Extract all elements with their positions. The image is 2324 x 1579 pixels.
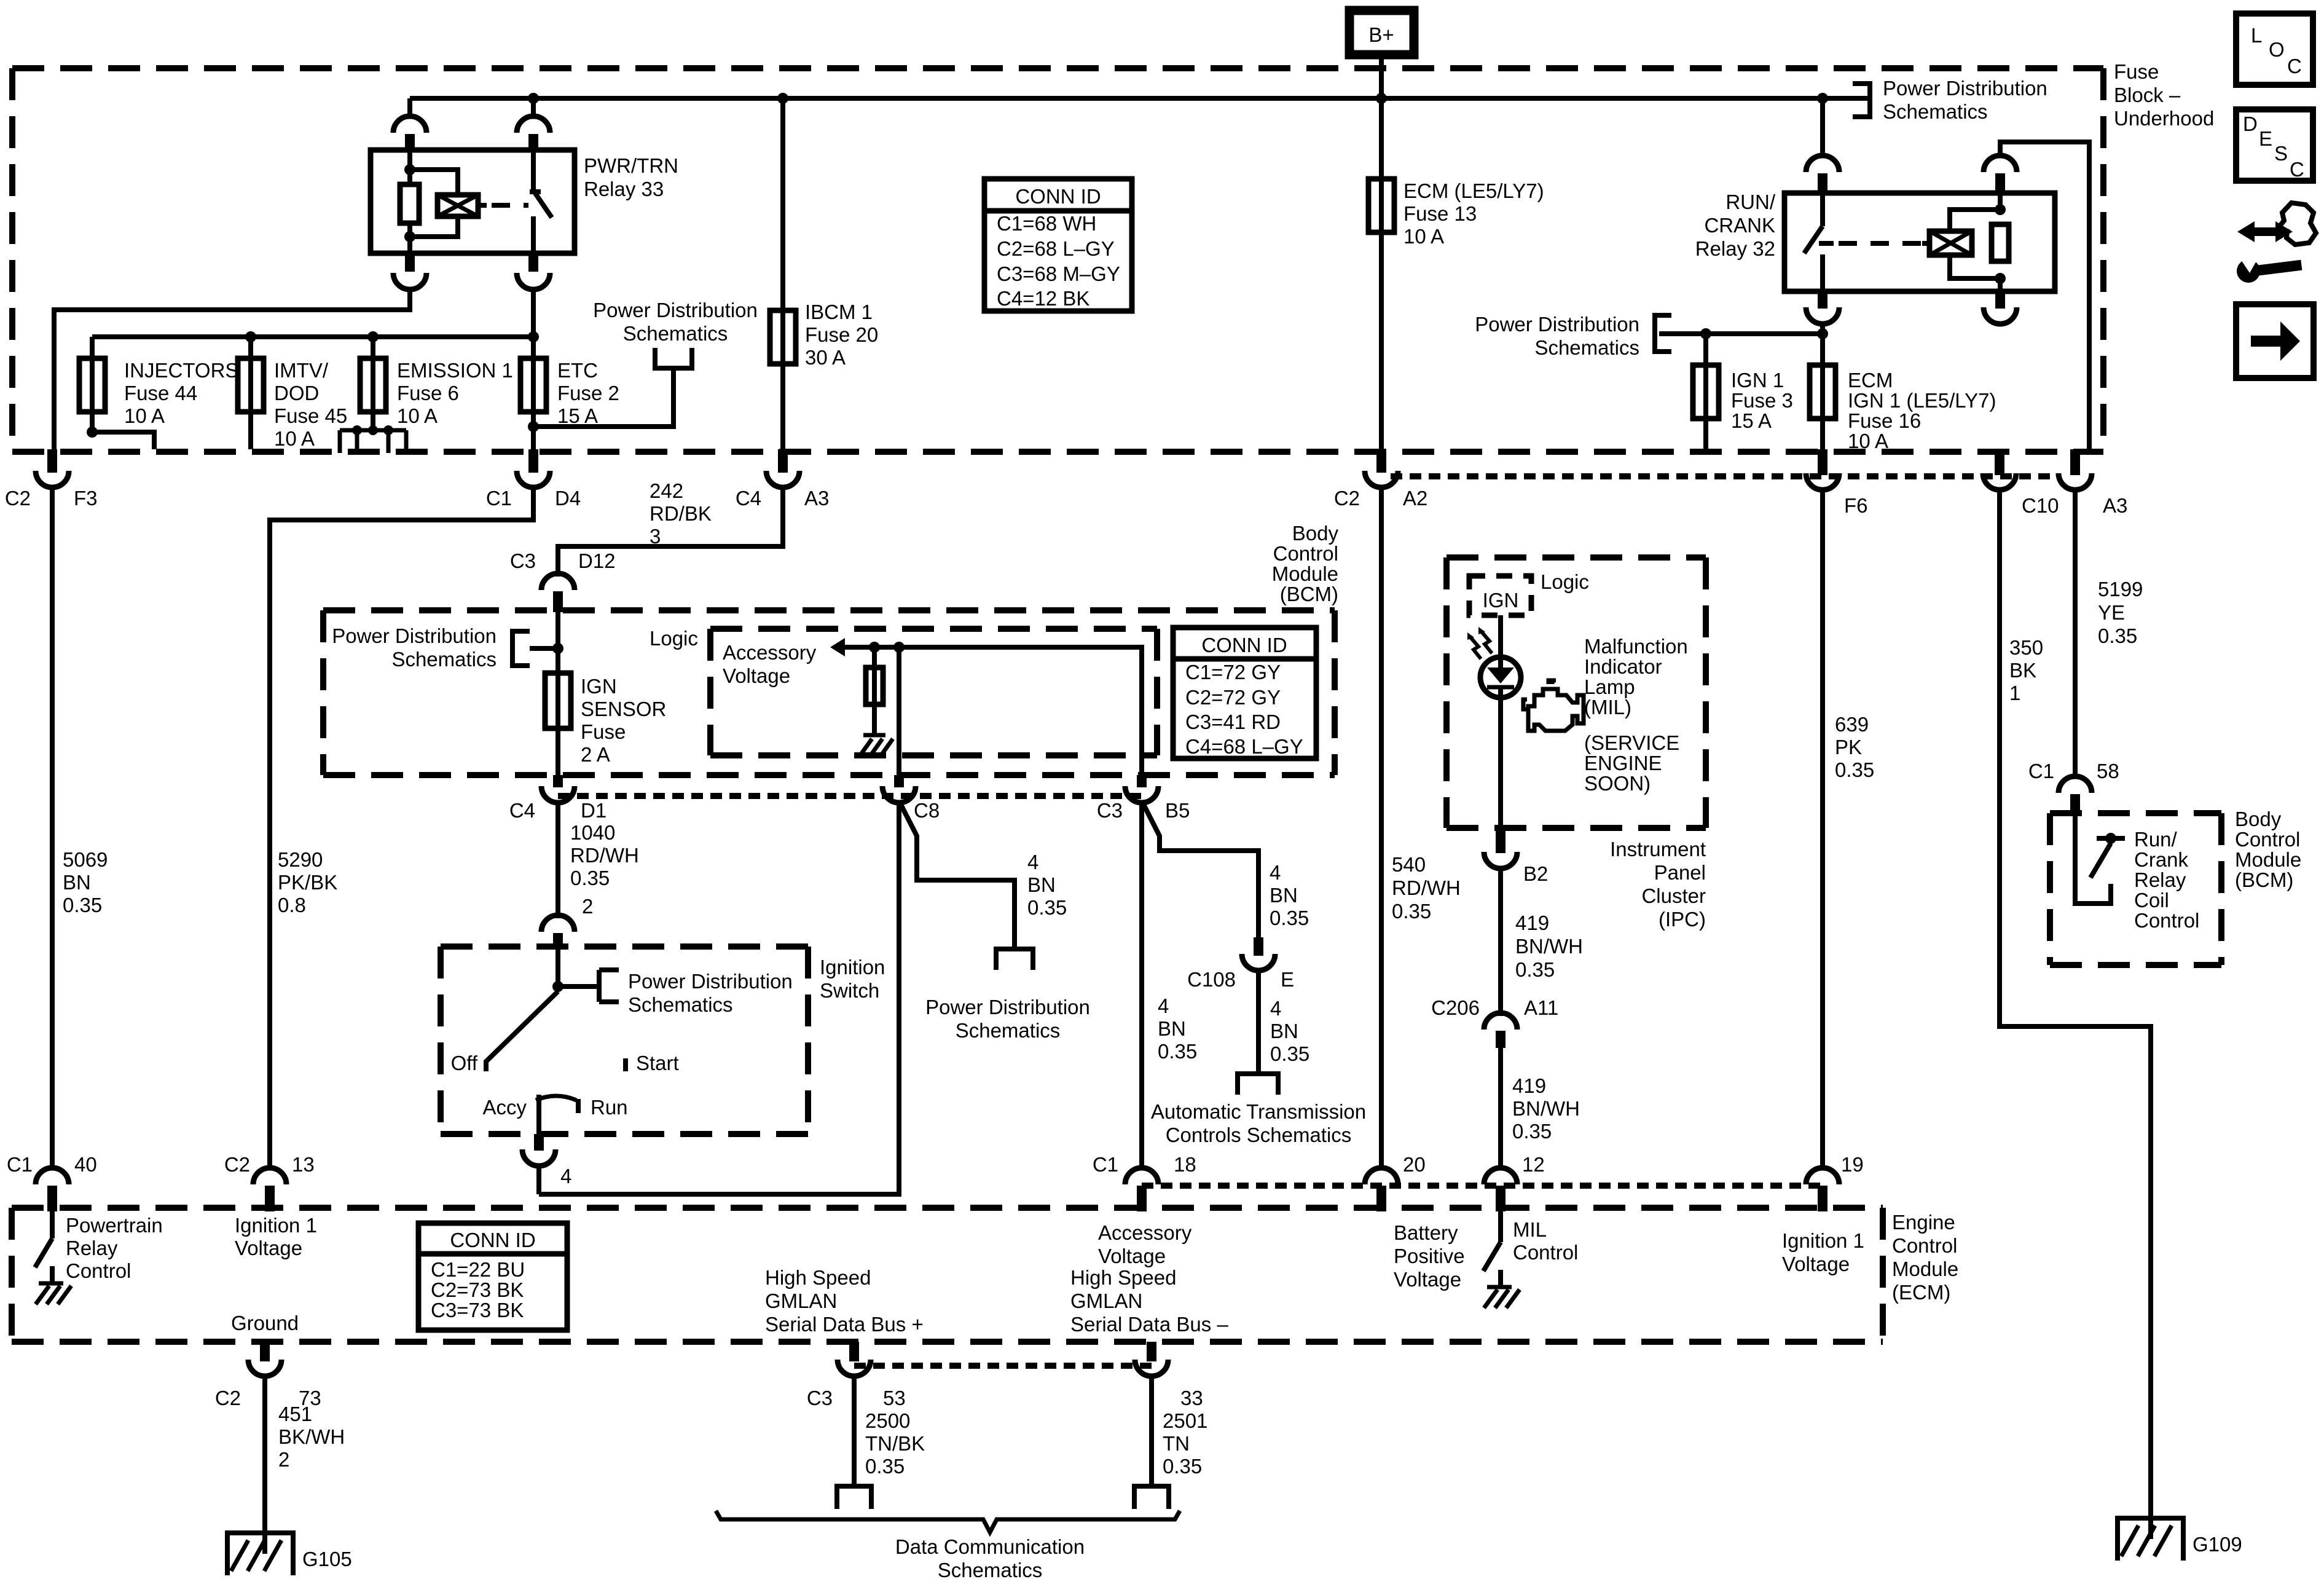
- connector arc relay32 right pin bottom: [1984, 307, 2017, 324]
- inner dashed box accessory voltage: [710, 629, 1157, 755]
- svg-text:B2: B2: [1523, 862, 1548, 885]
- connector arc relay32 left pin bottom: [1806, 307, 1839, 324]
- contact Start tick: [623, 1058, 628, 1071]
- connector C1/D4 exit: [486, 449, 581, 510]
- pin stub GMLAN plus exit: [849, 1342, 859, 1361]
- label 4 BN 0.35 C8 branch: [1027, 851, 1067, 919]
- label power distribution schematics BCM: [332, 624, 497, 671]
- wire 2500 TN/BK: [852, 1374, 857, 1484]
- svg-text:CONN ID: CONN ID: [1201, 634, 1287, 656]
- svg-text:Body: Body: [1292, 522, 1339, 545]
- label 540 RD/WH 0.35: [1392, 853, 1461, 923]
- fuse F20 IBCM 1: [770, 310, 796, 364]
- fuse block underhood dashed box: [12, 68, 2103, 452]
- svg-text:Module: Module: [2235, 848, 2301, 871]
- svg-text:High Speed: High Speed: [1070, 1266, 1176, 1289]
- page link staple GMLAN minus: [1134, 1486, 1169, 1509]
- svg-text:Control: Control: [1513, 1241, 1578, 1264]
- svg-text:C2=68 L–GY: C2=68 L–GY: [997, 237, 1115, 260]
- svg-text:Fuse: Fuse: [2114, 60, 2159, 83]
- svg-text:(SERVICE: (SERVICE: [1584, 731, 1679, 754]
- switch relay32 contact: [1804, 193, 1834, 291]
- connector C3/53 GMLAN plus: [807, 1360, 906, 1409]
- svg-text:242: 242: [650, 479, 683, 502]
- label 419 BN/WH 0.35 upper: [1515, 912, 1583, 981]
- svg-text:IGN 1 (LE5/LY7): IGN 1 (LE5/LY7): [1848, 389, 1996, 412]
- pin stub GMLAN minus exit: [1147, 1342, 1156, 1361]
- svg-text:Schematics: Schematics: [938, 1559, 1043, 1579]
- wire 639 PK ignition1 voltage ECM: [1820, 489, 1825, 1170]
- fuse block label: [2114, 60, 2214, 130]
- wire INJECTORS fuse output: [92, 412, 154, 449]
- svg-text:C1: C1: [486, 487, 512, 510]
- svg-text:(MIL): (MIL): [1584, 696, 1631, 719]
- svg-text:419: 419: [1512, 1074, 1546, 1097]
- label Body Control Module BCM: [1272, 522, 1339, 605]
- junction dot ETC output branch: [528, 421, 539, 432]
- svg-text:C1=68 WH: C1=68 WH: [997, 212, 1096, 235]
- label service engine soon: [1584, 731, 1679, 795]
- label 419 BN/WH 0.35 lower: [1512, 1074, 1580, 1143]
- node B+ battery feed box: [1349, 10, 1414, 55]
- svg-text:G109: G109: [2192, 1533, 2242, 1556]
- svg-text:Relay 32: Relay 32: [1695, 237, 1775, 260]
- svg-text:G105: G105: [302, 1548, 352, 1570]
- connector C1/40 ECM: [7, 1153, 97, 1211]
- fuse IGN SENSOR: [545, 673, 571, 728]
- svg-text:RD/WH: RD/WH: [570, 844, 639, 867]
- svg-text:0.35: 0.35: [1158, 1040, 1197, 1063]
- connector A3 exit right: [2059, 449, 2127, 517]
- svg-text:Battery: Battery: [1394, 1221, 1458, 1244]
- fuse F45 IMTV/DOD lead: [248, 337, 253, 412]
- label data communication schematics: [895, 1535, 1085, 1579]
- svg-text:Module: Module: [1892, 1258, 1958, 1280]
- relay K33 PWR/TRN Relay 33 box: [371, 150, 575, 253]
- svg-text:C2=73 BK: C2=73 BK: [431, 1278, 524, 1301]
- svg-text:2: 2: [582, 895, 593, 918]
- svg-text:0.35: 0.35: [1270, 1042, 1309, 1065]
- svg-text:ENGINE: ENGINE: [1584, 752, 1662, 774]
- svg-text:10 A: 10 A: [124, 404, 165, 427]
- svg-text:15 A: 15 A: [1731, 409, 1772, 432]
- junction dot ETC fuse: [528, 331, 539, 342]
- svg-text:Control: Control: [66, 1259, 131, 1282]
- fuse F3 label: [1731, 369, 1793, 432]
- svg-text:C3: C3: [510, 549, 536, 572]
- label 5199 YE 0.35: [2098, 578, 2143, 647]
- junction dot coil top: [404, 164, 415, 175]
- svg-text:D1: D1: [581, 799, 607, 822]
- connector C206/A11: [1431, 996, 1558, 1048]
- svg-text:E: E: [1281, 968, 1294, 991]
- svg-text:2501: 2501: [1163, 1409, 1207, 1432]
- relay33 label: [584, 154, 678, 200]
- pin stub ground exit: [260, 1342, 270, 1361]
- connector C2/A2 exit: [1334, 449, 1428, 510]
- pin stub relay33 left pin bottom: [405, 253, 415, 272]
- label automatic transmission controls schematics: [1151, 1100, 1366, 1146]
- pin stub relay32 left pin bottom: [1818, 291, 1827, 309]
- svg-text:IGN: IGN: [581, 675, 617, 698]
- wire relay32 coil branch: [1950, 210, 2000, 278]
- page link staple C8 PDS: [996, 949, 1033, 970]
- connector C10 exit: [1983, 449, 2059, 517]
- label accessory voltage BCM: [723, 641, 817, 687]
- wire C8 to ignition switch feed: [539, 801, 899, 1194]
- svg-text:639: 639: [1835, 713, 1869, 736]
- svg-text:2: 2: [278, 1448, 289, 1471]
- junction dot IGN1 fuse feed: [1700, 328, 1711, 339]
- ground chassis BCM accessory: [860, 735, 893, 756]
- svg-text:Serial Data Bus +: Serial Data Bus +: [765, 1313, 924, 1336]
- fuse F3 IGN 1: [1693, 365, 1719, 419]
- svg-text:A3: A3: [804, 487, 829, 510]
- svg-text:Fuse 2: Fuse 2: [557, 382, 619, 404]
- svg-text:Module: Module: [1272, 562, 1338, 585]
- svg-text:Fuse 3: Fuse 3: [1731, 389, 1793, 412]
- label malfunction indicator lamp MIL: [1584, 635, 1688, 719]
- svg-text:CRANK: CRANK: [1704, 214, 1775, 237]
- connector 12 ECM: [1484, 1153, 1545, 1211]
- svg-text:L: L: [2251, 24, 2262, 47]
- svg-text:C3=73 BK: C3=73 BK: [431, 1299, 524, 1321]
- label 350 BK 1: [2009, 636, 2043, 704]
- svg-text:350: 350: [2009, 636, 2043, 659]
- svg-text:C108: C108: [1187, 968, 1236, 991]
- svg-text:Fuse 6: Fuse 6: [397, 382, 459, 404]
- label 5290 PK/BK 0.8: [278, 848, 337, 916]
- svg-text:5290: 5290: [278, 848, 323, 871]
- svg-text:4: 4: [1158, 994, 1169, 1017]
- svg-text:15 A: 15 A: [557, 404, 598, 427]
- wire battery positive voltage: [1379, 488, 1384, 1170]
- svg-text:Automatic Transmission: Automatic Transmission: [1151, 1100, 1366, 1123]
- svg-text:PWR/TRN: PWR/TRN: [584, 154, 678, 177]
- connector C2/13 ECM: [224, 1153, 315, 1211]
- wire C108 to automatic transmission: [1256, 970, 1261, 1072]
- module BCM dashed box upper: [323, 610, 1335, 775]
- resistor relay33 coil suppression: [400, 184, 419, 223]
- contact Run tick: [576, 1099, 581, 1113]
- lightning arrows MIL: [1467, 627, 1492, 659]
- junction dot relay32 coil bottom: [1995, 273, 2006, 284]
- svg-text:DOD: DOD: [274, 382, 319, 404]
- svg-text:Fuse 13: Fuse 13: [1403, 202, 1477, 225]
- svg-text:Control: Control: [1892, 1234, 1957, 1257]
- label 4 BN 0.35 ECM branch: [1158, 994, 1197, 1063]
- svg-text:Logic: Logic: [1541, 570, 1589, 593]
- pin stub C4/D1: [553, 775, 563, 787]
- wire ECM fuse13 feed from bus: [1379, 98, 1384, 232]
- wire 5069 BN powertrain relay control: [50, 488, 55, 1170]
- page link staple automatic transmission: [1238, 1074, 1278, 1095]
- svg-text:A11: A11: [1524, 996, 1558, 1019]
- ground chassis MIL: [1484, 1287, 1520, 1308]
- svg-text:0.35: 0.35: [1027, 896, 1067, 919]
- svg-text:Relay: Relay: [2134, 868, 2186, 891]
- connector C1/18 ECM: [1093, 1153, 1196, 1211]
- relay32 label: [1695, 191, 1776, 260]
- wire relay32 left pin to fuse row: [1820, 322, 1825, 419]
- label powertrain relay control: [66, 1214, 163, 1282]
- svg-text:Fuse: Fuse: [581, 720, 626, 743]
- fuse F13 ECM (LE5/LY7): [1368, 179, 1394, 232]
- junction dot at relay33 right pin: [528, 93, 539, 104]
- fuse F13 label: [1403, 179, 1544, 248]
- svg-text:A3: A3: [2103, 494, 2127, 517]
- wire main B+ bus: [410, 96, 1870, 101]
- wire B+ down to bus: [1379, 55, 1384, 98]
- label 2500 TN/BK 0.35: [865, 1409, 925, 1478]
- svg-text:Fuse 16: Fuse 16: [1848, 409, 1921, 432]
- svg-text:C4=68 L–GY: C4=68 L–GY: [1185, 735, 1303, 758]
- svg-text:30 A: 30 A: [805, 346, 846, 369]
- svg-text:5199: 5199: [2098, 578, 2143, 600]
- connector C108/E: [1187, 954, 1294, 991]
- svg-text:C1: C1: [2028, 760, 2054, 782]
- icon DESC box: [2236, 109, 2313, 181]
- connector C3/B5: [1097, 786, 1190, 822]
- wire 242 RD/BK from A3 to D12: [558, 488, 783, 577]
- svg-text:Relay 33: Relay 33: [584, 178, 664, 200]
- label MIL control: [1513, 1218, 1578, 1264]
- label 5069 BN 0.35: [63, 848, 108, 916]
- svg-text:CONN ID: CONN ID: [450, 1229, 535, 1251]
- dashed actuation link relay32: [1839, 241, 1922, 246]
- svg-text:C1=72 GY: C1=72 GY: [1185, 661, 1281, 683]
- svg-text:D4: D4: [555, 487, 581, 510]
- junction dot ECM IGN1 fuse feed: [1817, 328, 1828, 339]
- bracket power distribution top right: [1853, 84, 1870, 117]
- label ignition 1 voltage ECM right: [1782, 1229, 1864, 1275]
- module ECM dashed box: [12, 1208, 1883, 1342]
- svg-text:C1=22 BU: C1=22 BU: [431, 1258, 525, 1281]
- label battery positive voltage: [1394, 1221, 1465, 1291]
- svg-text:Voltage: Voltage: [1782, 1253, 1850, 1275]
- fuse F2 ETC: [520, 358, 546, 412]
- svg-text:0.35: 0.35: [63, 894, 102, 916]
- label 242 RD/BK 3: [650, 479, 712, 548]
- connector F6 exit: [1806, 449, 1868, 517]
- svg-text:C: C: [2287, 55, 2302, 77]
- wire accy output with bridge arc: [536, 1095, 576, 1134]
- switch ignition blade: [486, 991, 558, 1071]
- svg-text:10 A: 10 A: [1403, 225, 1444, 248]
- page link staple power distribution (ETC): [655, 348, 692, 368]
- connector C8: [882, 786, 940, 822]
- wire fuse13 output to A2 exit: [1379, 232, 1384, 449]
- svg-text:Schematics: Schematics: [391, 648, 497, 671]
- svg-text:Ignition 1: Ignition 1: [1782, 1229, 1864, 1252]
- table CONN ID ECM: [418, 1223, 567, 1330]
- svg-text:58: 58: [2097, 760, 2119, 782]
- wire IGN to MIL lamp: [1498, 615, 1503, 657]
- connector arc relay33 right pin top: [517, 116, 550, 133]
- connector arc relay32 left pin top: [1806, 156, 1839, 172]
- connector 20 ECM: [1365, 1153, 1426, 1211]
- svg-text:BK/WH: BK/WH: [278, 1425, 345, 1448]
- bracket power distribution BCM: [512, 631, 530, 666]
- label 451 BK/WH 2: [278, 1403, 345, 1471]
- svg-text:IGN 1: IGN 1: [1731, 369, 1784, 392]
- connector B2: [1484, 852, 1548, 885]
- svg-text:5069: 5069: [63, 848, 108, 871]
- svg-text:Accy: Accy: [482, 1096, 527, 1119]
- wire branch to power distribution: [533, 371, 673, 427]
- svg-text:53: 53: [883, 1387, 906, 1409]
- svg-text:Voltage: Voltage: [1098, 1245, 1166, 1267]
- svg-text:C4=12 BK: C4=12 BK: [997, 287, 1089, 310]
- svg-text:18: 18: [1174, 1153, 1196, 1176]
- label power distribution schematics ignition: [628, 970, 793, 1016]
- switch relay33 contact: [530, 150, 552, 253]
- fuse F2 label: [557, 359, 619, 427]
- svg-text:0.35: 0.35: [2098, 624, 2137, 647]
- svg-text:S: S: [2274, 142, 2288, 165]
- wire relay33 left pin to F3 exit: [54, 288, 410, 449]
- label 1040 RD/WH 0.35: [570, 821, 639, 889]
- connector pin 2 ignition switch: [541, 915, 575, 932]
- label run crank relay coil control: [2134, 828, 2199, 932]
- wire IBCM feed: [780, 98, 785, 364]
- svg-text:Off: Off: [451, 1052, 478, 1074]
- svg-text:Relay: Relay: [66, 1237, 118, 1259]
- label 4 BN 0.35 B5 branch: [1270, 861, 1309, 929]
- fuse F6 EMISSION 1: [360, 358, 386, 412]
- wire 451 BK/WH to G105: [262, 1374, 267, 1554]
- wire relay32 left pin from bus: [1820, 98, 1825, 157]
- coil relay33 winding box-X: [438, 195, 487, 216]
- ground G105: [225, 1533, 352, 1575]
- svg-text:INJECTORS: INJECTORS: [124, 359, 238, 382]
- svg-text:Powertrain: Powertrain: [66, 1214, 163, 1237]
- svg-text:Panel: Panel: [1654, 861, 1706, 884]
- svg-text:BN/WH: BN/WH: [1512, 1097, 1580, 1120]
- resistor BCM accessory: [866, 667, 883, 704]
- svg-text:C2: C2: [1334, 487, 1360, 510]
- svg-text:2 A: 2 A: [581, 743, 610, 766]
- label power distribution schematics (ETC): [593, 299, 758, 345]
- wire IGN sensor fuse output: [555, 728, 560, 775]
- wire to PDS bracket BCM: [530, 646, 558, 651]
- svg-text:Schematics: Schematics: [628, 993, 733, 1016]
- svg-text:Logic: Logic: [650, 627, 698, 650]
- pin stub C8: [894, 775, 904, 787]
- svg-text:4: 4: [560, 1165, 571, 1187]
- fuse F45 label: [274, 359, 347, 450]
- coil relay32 winding box-X: [1922, 231, 1972, 255]
- page link staple GMLAN plus: [837, 1486, 871, 1509]
- svg-text:B+: B+: [1368, 23, 1394, 46]
- svg-text:C3=68 M–GY: C3=68 M–GY: [997, 262, 1120, 285]
- svg-text:C2: C2: [215, 1387, 241, 1409]
- svg-text:BN: BN: [1270, 1020, 1298, 1042]
- svg-text:TN: TN: [1163, 1432, 1190, 1455]
- svg-text:C2: C2: [224, 1153, 250, 1176]
- wire resistor branch: [872, 647, 877, 735]
- svg-text:0.35: 0.35: [1270, 907, 1309, 929]
- wire IGN1 fuse3 lead: [1703, 334, 1708, 419]
- label 2501 TN 0.35: [1163, 1409, 1207, 1478]
- svg-text:Ignition 1: Ignition 1: [235, 1214, 317, 1237]
- svg-text:C3: C3: [807, 1387, 833, 1409]
- svg-text:F6: F6: [1844, 494, 1868, 517]
- svg-text:IMTV/: IMTV/: [274, 359, 329, 382]
- svg-text:C206: C206: [1431, 996, 1480, 1019]
- svg-text:GMLAN: GMLAN: [765, 1290, 837, 1312]
- wire accessory voltage line: [844, 647, 1142, 775]
- wire IMTV fuse output: [248, 412, 253, 449]
- fuse F44 INJECTORS lead: [90, 337, 95, 412]
- lamp MIL LED: [1480, 657, 1521, 698]
- svg-text:TN/BK: TN/BK: [865, 1432, 925, 1455]
- junction dot IMTV fuse: [245, 331, 256, 342]
- connector C1/58: [2028, 760, 2119, 814]
- svg-text:Block –: Block –: [2114, 84, 2181, 106]
- wire ignition switch input: [555, 948, 560, 991]
- svg-text:SOON): SOON): [1584, 772, 1651, 795]
- connector line dotted underhood: [1391, 473, 2061, 479]
- brace data communication: [716, 1511, 1180, 1532]
- svg-text:Control: Control: [1273, 542, 1338, 565]
- pin stub relay33 right pin: [528, 134, 538, 151]
- svg-text:Power Distribution: Power Distribution: [593, 299, 758, 321]
- svg-text:1040: 1040: [570, 821, 615, 844]
- svg-text:Schematics: Schematics: [1883, 100, 1988, 123]
- wire C8 riser: [897, 647, 901, 775]
- arrow accessory voltage: [830, 638, 845, 656]
- svg-text:540: 540: [1392, 853, 1426, 876]
- svg-text:Cluster: Cluster: [1641, 884, 1706, 907]
- fuse F16 label: [1848, 369, 1996, 452]
- pin stub relay33 left pin: [405, 134, 415, 151]
- svg-text:C8: C8: [914, 799, 940, 822]
- dashed actuation link relay33: [492, 203, 528, 208]
- svg-text:Fuse 44: Fuse 44: [124, 382, 197, 404]
- label accessory voltage ECM: [1098, 1221, 1192, 1267]
- wire 5290 PK/BK ignition1 voltage: [270, 488, 533, 1170]
- fuse F20 label: [805, 301, 878, 369]
- svg-text:10 A: 10 A: [1848, 430, 1888, 452]
- svg-text:40: 40: [74, 1153, 97, 1176]
- label ignition 1 voltage ECM left: [235, 1214, 317, 1259]
- svg-text:Schematics: Schematics: [956, 1019, 1061, 1042]
- svg-text:BN: BN: [63, 871, 91, 894]
- pin stub C108: [1254, 937, 1263, 956]
- bracket power distribution mid right: [1655, 315, 1671, 352]
- wire B5 branch to C108: [1142, 801, 1258, 937]
- label 4 BN 0.35 C108 branch: [1270, 997, 1309, 1065]
- svg-text:ECM (LE5/LY7): ECM (LE5/LY7): [1403, 179, 1544, 202]
- connector C4/D1: [509, 786, 607, 822]
- svg-text:1: 1: [2009, 682, 2020, 704]
- svg-text:0.35: 0.35: [570, 867, 610, 889]
- wire IGN1 fuse3 output: [1703, 419, 1708, 449]
- wire B5 to ECM 18: [1139, 801, 1144, 1170]
- svg-text:SENSOR: SENSOR: [581, 698, 666, 720]
- wire to ignition PDS bracket: [558, 984, 599, 989]
- svg-text:C1: C1: [1093, 1153, 1118, 1176]
- wire ETC fuse output to D4 exit: [531, 412, 536, 449]
- label power distribution schematics mid right: [1475, 313, 1639, 359]
- connector 19 ECM: [1806, 1153, 1864, 1211]
- svg-text:4: 4: [1027, 851, 1038, 873]
- wire ignition 4 to C8 riser: [536, 1164, 541, 1194]
- svg-text:Underhood: Underhood: [2114, 107, 2214, 130]
- svg-text:Instrument: Instrument: [1610, 838, 1706, 860]
- svg-text:Body: Body: [2235, 808, 2282, 830]
